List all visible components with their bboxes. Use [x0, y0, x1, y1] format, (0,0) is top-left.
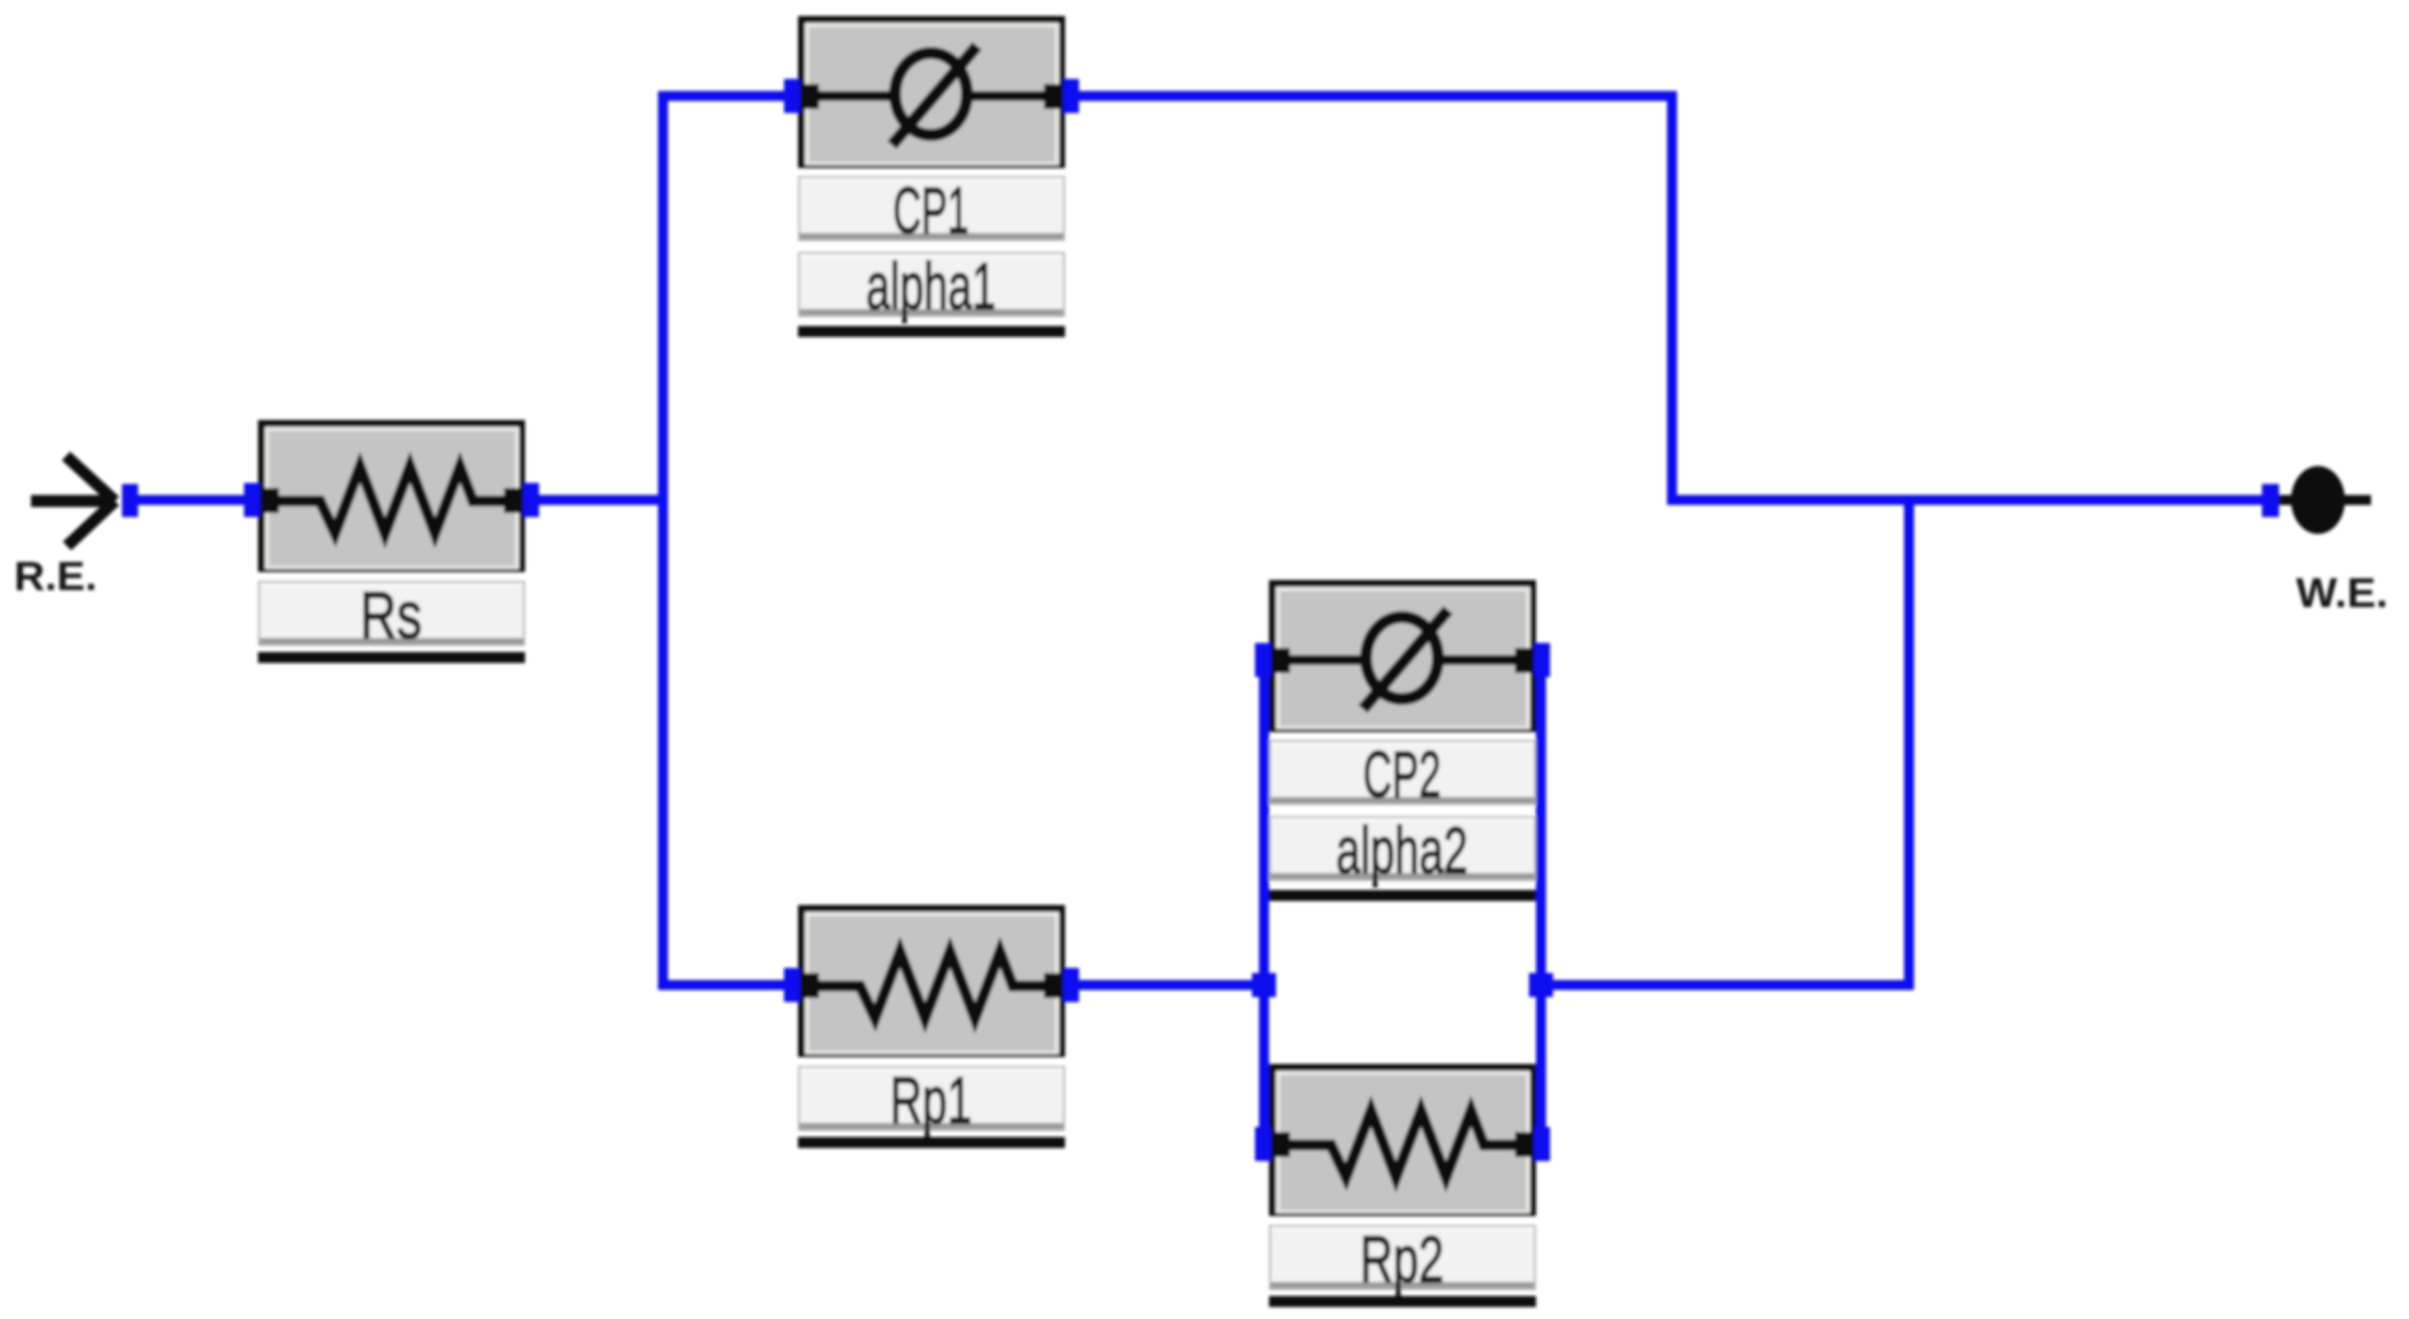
CP2 block shadow bar	[1269, 890, 1536, 901]
wire Rs to split node	[521, 495, 668, 505]
CP1 block shadow bar	[798, 326, 1065, 337]
node parallel-block left junction	[1252, 973, 1276, 997]
wire top branch to CP1	[658, 91, 802, 101]
CP1 value label box	[798, 173, 1065, 247]
alpha1 value label box	[798, 249, 1065, 323]
wire CP1 to top-right corner and down	[1061, 96, 1672, 500]
Rs value label box	[258, 578, 525, 652]
node CP2 left terminal	[1255, 643, 1271, 677]
node Rs right terminal	[523, 483, 539, 517]
node R.E. end marker	[122, 484, 138, 517]
svg-text:CP1: CP1	[893, 173, 969, 247]
svg-text:W.E.: W.E.	[2296, 569, 2388, 616]
resistor Rp2	[1269, 1064, 1536, 1216]
Rp1 value label box	[798, 1063, 1065, 1137]
node W.E. end marker	[2262, 484, 2279, 517]
node CP1 left terminal	[784, 79, 800, 113]
Rp1 block shadow bar	[798, 1137, 1065, 1148]
wire bottom branch to Rp1	[658, 980, 802, 990]
node parallel-block right junction	[1529, 973, 1553, 997]
capacitor CP1 (constant phase element)	[798, 16, 1065, 168]
svg-text:Rs: Rs	[360, 578, 422, 652]
wire right vertical of CP2/Rp2 parallel block	[1536, 650, 1546, 1140]
node Rp1 right terminal	[1063, 968, 1079, 1002]
svg-text:R.E.: R.E.	[14, 553, 97, 599]
svg-text:Rp2: Rp2	[1360, 1222, 1444, 1296]
R.E. input terminal arrow	[31, 456, 115, 546]
wire R.E. to Rs	[128, 495, 262, 505]
W.E. output terminal dot	[2279, 466, 2371, 534]
Rp2 block shadow bar	[1269, 1296, 1536, 1307]
node Rp1 left terminal	[784, 968, 800, 1002]
resistor Rp1	[798, 905, 1065, 1057]
resistor Rs	[258, 420, 525, 572]
capacitor CP2 (constant phase element)	[1269, 580, 1536, 732]
node Rs left terminal	[244, 483, 260, 517]
svg-text:alpha2: alpha2	[1336, 813, 1468, 887]
CP2 value label box	[1269, 737, 1536, 811]
node CP1 right terminal	[1063, 79, 1079, 113]
wire parallel block to right riser	[1537, 980, 1914, 990]
svg-text:Rp1: Rp1	[890, 1063, 972, 1137]
wire vertical split branch	[658, 91, 668, 990]
wire corner to W.E.	[1667, 495, 2268, 505]
Rs block shadow bar	[258, 652, 525, 663]
wire left vertical of CP2/Rp2 parallel block	[1259, 650, 1269, 1140]
Rp2 value label box	[1269, 1222, 1536, 1296]
wire Rp1 to parallel block	[1061, 980, 1271, 990]
node Rp2 left terminal	[1255, 1127, 1271, 1161]
alpha2 value label box	[1269, 813, 1536, 887]
svg-text:CP2: CP2	[1363, 737, 1441, 811]
node CP2 right terminal	[1534, 643, 1550, 677]
node Rp2 right terminal	[1534, 1127, 1550, 1161]
svg-text:alpha1: alpha1	[866, 249, 996, 323]
wire T junction down to bottom branch	[1904, 500, 1914, 990]
